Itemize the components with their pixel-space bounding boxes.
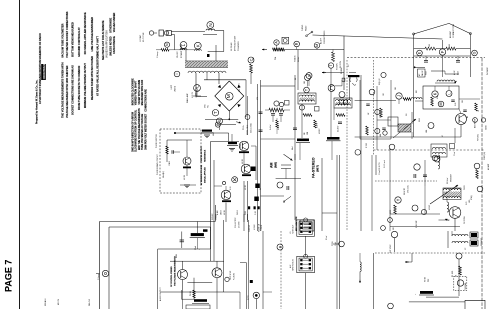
svg-text:AM IF AMP: AM IF AMP bbox=[474, 118, 477, 128]
svg-text:TM 10: TM 10 bbox=[425, 277, 427, 282]
svg-text:LEFT SPKR: LEFT SPKR bbox=[230, 270, 232, 280]
svg-text:Y: Y bbox=[396, 198, 401, 201]
svg-text:C5017 (M): C5017 (M) bbox=[484, 152, 486, 160]
svg-text:560: 560 bbox=[429, 44, 431, 47]
svg-text:988 A14: 988 A14 bbox=[44, 298, 47, 306]
svg-text:FROM TUBE SOCKETS TO COMMON: FROM TUBE SOCKETS TO COMMON bbox=[78, 66, 81, 110]
svg-text:VIEWED FROM SHAFT: VIEWED FROM SHAFT bbox=[135, 80, 138, 105]
svg-text:10: 10 bbox=[295, 78, 297, 80]
svg-text:AT MINIMUM VOLUME: AT MINIMUM VOLUME bbox=[200, 164, 203, 185]
svg-text:LINE VOLTAGE MAINTAINED: LINE VOLTAGE MAINTAINED bbox=[91, 17, 94, 51]
svg-text:POWER TRANS: POWER TRANS bbox=[180, 43, 183, 58]
svg-text:4M 84: 4M 84 bbox=[224, 210, 226, 215]
svg-text:OHM PER VOLT METER SOCKET: OHM PER VOLT METER SOCKET bbox=[146, 113, 148, 150]
svg-text:3-8 F and: 3-8 F and bbox=[384, 160, 386, 168]
svg-text:VALUES UNDER: VALUES UNDER bbox=[113, 13, 116, 33]
svg-text:OSC COIL: OSC COIL bbox=[408, 185, 410, 193]
svg-text:I: I bbox=[175, 73, 179, 74]
svg-text:05: 05 bbox=[467, 116, 469, 118]
svg-text:40mf: 40mf bbox=[240, 144, 242, 148]
svg-text:1245: 1245 bbox=[419, 118, 421, 122]
svg-text:GOLD: GOLD bbox=[237, 209, 239, 215]
svg-text:M6 CH: M6 CH bbox=[58, 298, 60, 305]
svg-text:PHONO: PHONO bbox=[302, 24, 304, 31]
svg-text:AL 02: AL 02 bbox=[421, 71, 424, 75]
svg-text:PL: PL bbox=[195, 85, 200, 91]
svg-text:1.5mf: 1.5mf bbox=[326, 235, 328, 240]
svg-text:I LEFT: I LEFT bbox=[171, 85, 173, 90]
svg-text:M: M bbox=[315, 44, 319, 47]
svg-text:VACUUM TUBE VOLTMETER: VACUUM TUBE VOLTMETER bbox=[62, 23, 65, 57]
svg-text:60 CYCLE: 60 CYCLE bbox=[143, 32, 145, 42]
svg-text:FM CONV: FM CONV bbox=[464, 215, 466, 224]
svg-text:AT RATED VALUE ALL RESISTORS: AT RATED VALUE ALL RESISTORS bbox=[97, 54, 100, 96]
svg-text:TR2: TR2 bbox=[428, 279, 430, 282]
svg-text:T: T bbox=[213, 111, 218, 114]
svg-text:SIGNAL APPLIED: SIGNAL APPLIED bbox=[204, 167, 207, 183]
svg-text:CAPACITANCE: CAPACITANCE bbox=[113, 36, 116, 54]
svg-text:SM 414: SM 414 bbox=[89, 298, 91, 306]
svg-text:ONE HALF WATT: ONE HALF WATT bbox=[97, 35, 100, 56]
svg-text:POLARIZED: POLARIZED bbox=[237, 41, 240, 51]
svg-text:IN W ANT: IN W ANT bbox=[486, 68, 489, 76]
svg-text:117VAC: 117VAC bbox=[139, 34, 142, 42]
svg-text:2.2meg: 2.2meg bbox=[98, 274, 100, 280]
svg-text:2700: 2700 bbox=[245, 211, 247, 215]
svg-text:PM CON: PM CON bbox=[340, 60, 342, 68]
svg-text:RESISTANCE: RESISTANCE bbox=[204, 149, 207, 162]
svg-text:GOLD LEAD: GOLD LEAD bbox=[250, 123, 253, 133]
svg-text:.005: .005 bbox=[426, 130, 428, 133]
svg-text:PHONO MOTOR: PHONO MOTOR bbox=[156, 134, 158, 148]
svg-text:1 MEG: 1 MEG bbox=[169, 160, 171, 166]
svg-text:F: F bbox=[440, 50, 445, 53]
svg-text:K: K bbox=[433, 92, 438, 95]
svg-text:J: J bbox=[397, 95, 402, 97]
svg-text:VOLT METER SOCKET CONNECTIONS: VOLT METER SOCKET CONNECTIONS bbox=[66, 11, 69, 58]
svg-text:GROUND CONTROLS AT: GROUND CONTROLS AT bbox=[78, 27, 81, 57]
svg-text:62066: 62066 bbox=[486, 125, 488, 130]
svg-text:M: M bbox=[226, 94, 232, 98]
svg-text:40mf: 40mf bbox=[213, 132, 215, 136]
svg-text:7.5mf: 7.5mf bbox=[454, 151, 456, 156]
svg-text:AV-4HF: AV-4HF bbox=[320, 37, 323, 44]
svg-text:AUDIO OUTPUT: AUDIO OUTPUT bbox=[159, 287, 162, 301]
svg-text:4 OHM: 4 OHM bbox=[254, 224, 256, 230]
svg-text:1.5mf 10-16 TR: 1.5mf 10-16 TR bbox=[379, 162, 381, 175]
svg-text:COLLECTOR: COLLECTOR bbox=[235, 217, 237, 228]
svg-text:50mf: 50mf bbox=[195, 246, 197, 250]
svg-text:TRANS: TRANS bbox=[215, 213, 218, 220]
svg-text:BOTTOM VIEWS MEASURED: BOTTOM VIEWS MEASURED bbox=[72, 22, 75, 57]
svg-text:VALUES IN APPLICATION: VALUES IN APPLICATION bbox=[106, 30, 109, 58]
svg-text:EXT SPKR: EXT SPKR bbox=[390, 244, 392, 253]
svg-text:CIRCUITRACE: CIRCUITRACE bbox=[43, 63, 46, 79]
svg-text:500mf: 500mf bbox=[221, 210, 223, 215]
svg-text:LINKED: LINKED bbox=[175, 85, 177, 92]
svg-text:47: 47 bbox=[442, 135, 444, 137]
svg-text:VOLTAGE MEASURED WITH 1000 OHM: VOLTAGE MEASURED WITH 1000 OHM PER bbox=[66, 65, 69, 118]
svg-text:NORM 4 BLK: NORM 4 BLK bbox=[247, 124, 249, 135]
svg-text:.005: .005 bbox=[380, 134, 382, 137]
svg-text:RADIO: RADIO bbox=[305, 25, 308, 31]
svg-text:G: G bbox=[473, 51, 477, 54]
svg-text:50mf: 50mf bbox=[292, 146, 294, 150]
svg-text:TRIMMER: TRIMMER bbox=[451, 173, 453, 182]
svg-text:M: M bbox=[165, 43, 169, 46]
svg-text:1.5amp: 1.5amp bbox=[157, 52, 159, 58]
svg-text:03: 03 bbox=[260, 188, 262, 190]
svg-text:560: 560 bbox=[449, 44, 451, 47]
svg-text:270: 270 bbox=[462, 100, 464, 103]
svg-text:14-48mf: 14-48mf bbox=[338, 125, 340, 132]
svg-text:TUBE VOLTMETER AC VOLTAGE: TUBE VOLTMETER AC VOLTAGE bbox=[141, 113, 144, 150]
svg-text:CRC8: CRC8 bbox=[464, 186, 466, 190]
svg-text:IF 262: IF 262 bbox=[366, 143, 368, 148]
svg-text:(867): (867) bbox=[316, 165, 320, 172]
svg-text:OF CONTROL VIEWED: OF CONTROL VIEWED bbox=[171, 266, 173, 287]
svg-text:CONNECTIONS: CONNECTIONS bbox=[324, 30, 326, 44]
svg-text:YEL: YEL bbox=[208, 105, 210, 108]
svg-text:M6 ON AM: M6 ON AM bbox=[230, 42, 233, 51]
svg-text:INDICATES CLOCKWISE: INDICATES CLOCKWISE bbox=[131, 78, 134, 105]
svg-text:SM(L) M: SM(L) M bbox=[379, 78, 381, 85]
svg-text:T-M 10N: T-M 10N bbox=[337, 63, 339, 70]
svg-text:B: B bbox=[278, 245, 283, 248]
svg-text:4M 83: 4M 83 bbox=[245, 185, 247, 190]
svg-text:TO B+: TO B+ bbox=[243, 125, 245, 130]
svg-text:.02: .02 bbox=[368, 113, 370, 115]
svg-text:1.5mf: 1.5mf bbox=[335, 241, 337, 246]
svg-text:AL 02: AL 02 bbox=[453, 71, 456, 75]
svg-text:455KC: 455KC bbox=[429, 204, 431, 210]
svg-text:455KC: 455KC bbox=[319, 128, 321, 134]
svg-text:N: N bbox=[208, 23, 213, 26]
svg-text:47 OHM: 47 OHM bbox=[239, 221, 241, 228]
svg-text:NO SIGNAL APPLIED RESISTANCE: NO SIGNAL APPLIED RESISTANCE bbox=[84, 12, 87, 54]
svg-text:PLUG IN: PLUG IN bbox=[234, 272, 236, 280]
svg-text:500: 500 bbox=[304, 81, 306, 84]
svg-text:FM ANT: FM ANT bbox=[340, 66, 343, 74]
svg-text:4M 81: 4M 81 bbox=[184, 175, 186, 180]
svg-text:IN 47: IN 47 bbox=[458, 71, 460, 75]
svg-text:IN 47: IN 47 bbox=[426, 71, 428, 75]
svg-text:ONE IN MFD DIRECTION OF ARROW: ONE IN MFD DIRECTION OF ARROW bbox=[131, 111, 134, 152]
svg-text:PAGE 7: PAGE 7 bbox=[4, 260, 14, 292]
svg-text:C: C bbox=[249, 58, 254, 61]
svg-text:MEASURED WITH 1000: MEASURED WITH 1000 bbox=[141, 79, 144, 105]
svg-text:W1 RED: W1 RED bbox=[452, 270, 454, 277]
svg-text:CONNECTIONS: CONNECTIONS bbox=[453, 23, 455, 38]
svg-text:DRIVER: DRIVER bbox=[212, 213, 214, 220]
svg-text:(M6): (M6) bbox=[274, 162, 278, 168]
svg-text:TUNER: TUNER bbox=[261, 224, 263, 231]
svg-text:SOCKET CONNECTIONS ARE SHOWN A: SOCKET CONNECTIONS ARE SHOWN AS bbox=[72, 65, 75, 115]
svg-text:RIGHT CH: RIGHT CH bbox=[259, 223, 261, 232]
svg-text:M: M bbox=[439, 102, 443, 105]
svg-text:CONNECTIONS ARE: CONNECTIONS ARE bbox=[145, 89, 148, 112]
svg-text:6.3V 7V: 6.3V 7V bbox=[192, 91, 194, 98]
svg-text:SPEAKER: SPEAKER bbox=[480, 237, 483, 246]
svg-text:CLOCKWISE ROTATION OF CONTROL: CLOCKWISE ROTATION OF CONTROL bbox=[135, 109, 138, 152]
svg-text:IF 10.7MC: IF 10.7MC bbox=[416, 220, 418, 228]
svg-text:PHONOGRAPH CIRCUIT: PHONOGRAPH CIRCUIT bbox=[156, 153, 159, 175]
svg-text:W 1A 1K: W 1A 1K bbox=[294, 55, 297, 62]
svg-text:12-56mf: 12-56mf bbox=[447, 177, 449, 184]
svg-text:220: 220 bbox=[395, 87, 397, 90]
svg-text:3.7mv: 3.7mv bbox=[248, 295, 250, 300]
svg-text:END THE VOLTAGE MEASUREMENTS: END THE VOLTAGE MEASUREMENTS bbox=[138, 108, 141, 150]
svg-text:AM ANT: AM ANT bbox=[449, 30, 452, 38]
svg-text:ON-OFF: ON-OFF bbox=[177, 50, 179, 58]
svg-text:DIAL LAMP: DIAL LAMP bbox=[186, 92, 189, 103]
svg-text:K: K bbox=[195, 44, 200, 47]
svg-text:AM ANT: AM ANT bbox=[487, 164, 490, 170]
svg-text:THE VOLTAGE MEASUREMENTS: THE VOLTAGE MEASUREMENTS bbox=[174, 256, 177, 286]
svg-text:APPROED BY GMT: APPROED BY GMT bbox=[234, 36, 237, 51]
svg-text:FM OSC: FM OSC bbox=[478, 133, 480, 141]
svg-text:C-38: C-38 bbox=[255, 211, 257, 215]
svg-text:MINIMUM VOLUME PROPER OUTPUT: MINIMUM VOLUME PROPER OUTPUT bbox=[84, 63, 87, 108]
svg-text:READINGS TAKEN WITH NO POWER: READINGS TAKEN WITH NO POWER bbox=[91, 56, 94, 100]
svg-text:1-47mf: 1-47mf bbox=[278, 124, 280, 130]
svg-text:10-16 TR: 10-16 TR bbox=[404, 187, 406, 195]
svg-text:4-47mf: 4-47mf bbox=[317, 122, 319, 128]
svg-text:TAKEN WITH VACUUM: TAKEN WITH VACUUM bbox=[138, 80, 141, 105]
svg-text:SEL RECT: SEL RECT bbox=[239, 82, 241, 92]
svg-text:3-8: 3-8 bbox=[406, 114, 408, 116]
svg-text:THE VOLTAGE MEASUREMENTS TAKEN: THE VOLTAGE MEASUREMENTS TAKEN WITH bbox=[62, 62, 65, 118]
svg-text:MA 4(17): MA 4(17) bbox=[162, 171, 165, 178]
svg-text:.005: .005 bbox=[469, 200, 471, 203]
svg-text:SEE PARTS LIST FOR ALTERNATE: SEE PARTS LIST FOR ALTERNATE bbox=[102, 20, 105, 60]
svg-text:1-47mf: 1-47mf bbox=[270, 124, 272, 130]
svg-text:14.8mf: 14.8mf bbox=[298, 56, 300, 62]
svg-text:OUTPUT: OUTPUT bbox=[249, 225, 251, 232]
svg-text:PROPER OUTPUT: PROPER OUTPUT bbox=[201, 145, 203, 162]
svg-text:TUNER OUT: TUNER OUT bbox=[293, 225, 295, 234]
svg-text:4M 82: 4M 82 bbox=[242, 159, 244, 164]
